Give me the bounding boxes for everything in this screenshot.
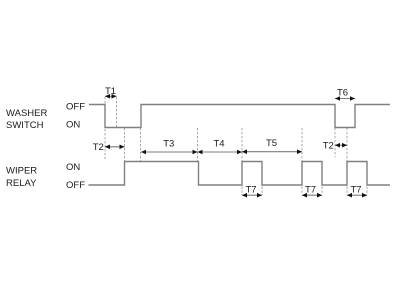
dashed guide line wiper P1 fall x=197.5 (197, 128, 199, 162)
svg-text:T2: T2 (93, 142, 104, 153)
dimension T1 arrow (105, 94, 117, 99)
dashed guide line T1 right x=116.5 (116, 97, 118, 128)
label WASHER SWITCH (6, 108, 47, 131)
dimension T7 (pulse 4) arrow (347, 193, 367, 198)
dashed guide line wiper P2 rise x=242 (241, 128, 243, 162)
dashed guide line wiper P3 rise x=302 (301, 128, 303, 162)
svg-text:T7: T7 (245, 185, 256, 196)
label WIPER RELAY (6, 166, 37, 189)
dashed tick below P2 right edge (261, 187, 263, 196)
dashed tick below P3 right edge (321, 187, 323, 196)
svg-text:T7: T7 (350, 185, 361, 196)
dashed tick below P4 right edge (366, 187, 368, 196)
dimension T7 (pulse 3) arrow (302, 193, 322, 198)
dashed tick below P4 left edge (346, 187, 348, 196)
svg-text:T4: T4 (213, 139, 224, 150)
svg-text:T3: T3 (163, 139, 174, 150)
svg-text:WASHER: WASHER (6, 108, 47, 119)
svg-text:T2: T2 (323, 141, 334, 152)
dashed guide line washer rise x=140.5 (140, 128, 142, 162)
svg-text:WIPER: WIPER (6, 166, 37, 177)
dimension T6 arrow (335, 96, 355, 101)
dashed guide line washer 2nd fall x=335 (334, 128, 336, 157)
dashed guide line wiper rise x=124.5 (124, 128, 126, 162)
svg-text:SWITCH: SWITCH (6, 120, 44, 131)
dashed guide line wiper P4 rise x=347 (346, 128, 348, 162)
dimension T7 (pulse 2) arrow (242, 193, 262, 198)
dimension T2 (right) arrow (335, 143, 347, 148)
svg-text:OFF: OFF (66, 101, 85, 112)
dashed tick below P3 left edge (301, 187, 303, 196)
dimension T3 arrow (141, 150, 198, 155)
dimension T5 arrow (242, 149, 302, 154)
svg-text:OFF: OFF (66, 180, 85, 191)
dimension T4 arrow (198, 150, 243, 155)
svg-text:RELAY: RELAY (6, 178, 37, 189)
dashed tick below P2 left edge (241, 187, 243, 196)
waveform wiper relay (89, 162, 391, 186)
svg-text:ON: ON (66, 162, 80, 173)
svg-text:T5: T5 (266, 138, 277, 149)
svg-text:ON: ON (66, 119, 80, 130)
dashed guide line at washer fall x=105 (104, 97, 106, 159)
dimension T2 (left) arrow (105, 145, 125, 150)
waveform washer switch (89, 105, 390, 128)
